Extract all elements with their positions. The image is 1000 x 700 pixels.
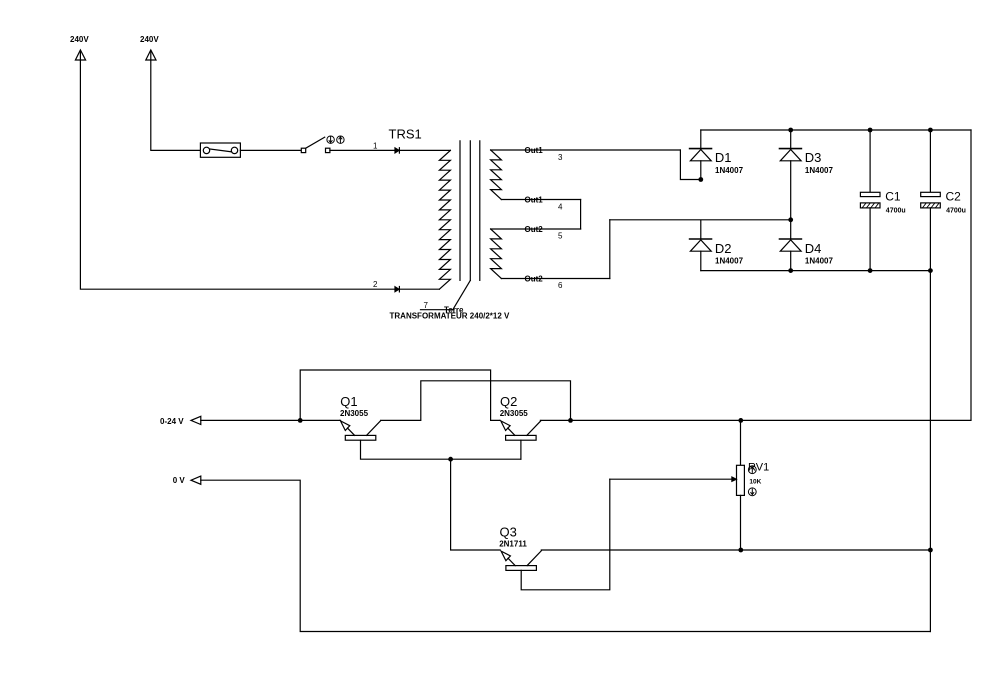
svg-text:10K: 10K (749, 478, 761, 485)
svg-text:Q1: Q1 (340, 394, 357, 409)
svg-text:1: 1 (373, 141, 378, 150)
svg-text:Out1: Out1 (525, 196, 544, 205)
wire base node down to Q3 emitter (451, 459, 501, 550)
transformer TRS1 core (460, 141, 480, 281)
svg-text:2N1711: 2N1711 (499, 540, 527, 549)
wire 240V-right down to fuse (151, 60, 201, 150)
wire Q2 collector to right rail (540, 419, 740, 421)
fuse F1 (200, 143, 240, 157)
svg-text:240V: 240V (140, 35, 159, 44)
svg-text:2N3055: 2N3055 (340, 409, 369, 418)
wire switch to transformer pin 1 (330, 149, 451, 151)
switch SW1 (301, 136, 344, 153)
svg-text:C1: C1 (885, 190, 901, 204)
wire Q2 base down (520, 440, 522, 459)
wire 240V-left down and to pin 2 (80, 60, 439, 289)
svg-text:Q3: Q3 (500, 525, 517, 540)
pin 1 (373, 141, 399, 153)
svg-text:1N4007: 1N4007 (805, 166, 834, 175)
svg-text:RV1: RV1 (748, 461, 769, 473)
svg-text:Q2: Q2 (500, 394, 517, 409)
wire node A loop to Q2 emitter (300, 370, 500, 420)
transistor Q3 2N1711 (499, 525, 541, 571)
wire fuse to switch (240, 149, 301, 151)
svg-text:D1: D1 (715, 150, 732, 165)
terminal 240V left (70, 35, 89, 60)
svg-text:240V: 240V (70, 35, 89, 44)
wire Q3 base to RV1 wiper riser (521, 479, 610, 590)
terminal 240V right (140, 35, 159, 60)
svg-text:7: 7 (424, 301, 429, 310)
svg-text:1N4007: 1N4007 (715, 166, 744, 175)
svg-text:D4: D4 (805, 241, 822, 256)
diode D2 (690, 220, 744, 270)
transformer TRS1 primary winding (439, 150, 450, 289)
svg-text:C2: C2 (946, 190, 962, 204)
svg-text:TRS1: TRS1 (389, 127, 422, 142)
svg-text:6: 6 (558, 281, 563, 290)
svg-text:1N4007: 1N4007 (715, 256, 744, 265)
wire pin 6 / node Out2 to bridge mid (501, 220, 790, 290)
wire C2 column down to bottom rail (929, 271, 931, 632)
transistor Q2 2N3055 (500, 394, 541, 440)
transformer TRS1 secondary winding 1 (491, 150, 502, 200)
svg-text:4700u: 4700u (886, 208, 906, 215)
wire pin 5 / node Out2 + center-tap join (491, 200, 581, 241)
diode D1 (690, 130, 744, 180)
diode D4 (780, 220, 834, 270)
transistor Q1 2N3055 (340, 394, 381, 440)
svg-text:TRANSFORMATEUR 240/2*12 V: TRANSFORMATEUR 240/2*12 V (390, 312, 511, 321)
svg-text:2: 2 (373, 280, 378, 289)
wire Q1 collector riser (381, 381, 571, 421)
wire pin 4 / node Out1 (501, 196, 580, 212)
svg-text:4700u: 4700u (946, 208, 966, 215)
svg-text:Out1: Out1 (525, 146, 544, 155)
wire pin 3 / node Out1 (491, 146, 681, 162)
terminal 0 V (173, 476, 201, 485)
capacitor C1 (860, 130, 905, 271)
svg-text:3: 3 (558, 153, 563, 162)
svg-text:0 V: 0 V (173, 476, 186, 485)
svg-text:1N4007: 1N4007 (805, 256, 834, 265)
wire 0-24V to Q1 emitter (201, 419, 341, 421)
wire Q1 base down (361, 440, 521, 459)
svg-text:0-24 V: 0-24 V (160, 417, 184, 426)
wire 0V down to bottom rail (201, 480, 931, 631)
pin 7 Terre (earth tap) (421, 280, 471, 314)
wire - rail (bottom) (701, 270, 931, 272)
svg-text:Out2: Out2 (525, 275, 544, 284)
svg-text:D2: D2 (715, 241, 732, 256)
svg-text:D3: D3 (805, 150, 822, 165)
wire + rail (top) (701, 129, 971, 131)
svg-text:Out2: Out2 (525, 225, 544, 234)
transformer TRS1 secondary winding 2 (491, 229, 502, 279)
svg-text:2N3055: 2N3055 (500, 409, 529, 418)
wire Q3 collector rail (541, 549, 930, 551)
potentiometer RV1 (610, 420, 769, 550)
wire pin 3 to D1/D2 node (680, 150, 700, 180)
capacitor C2 (921, 130, 966, 271)
svg-text:5: 5 (558, 232, 563, 241)
terminal 0-24 V (160, 416, 201, 426)
wire + rail right drop (741, 130, 971, 420)
diode D3 (780, 130, 834, 220)
svg-text:4: 4 (558, 203, 563, 212)
pin 2 (373, 280, 399, 292)
